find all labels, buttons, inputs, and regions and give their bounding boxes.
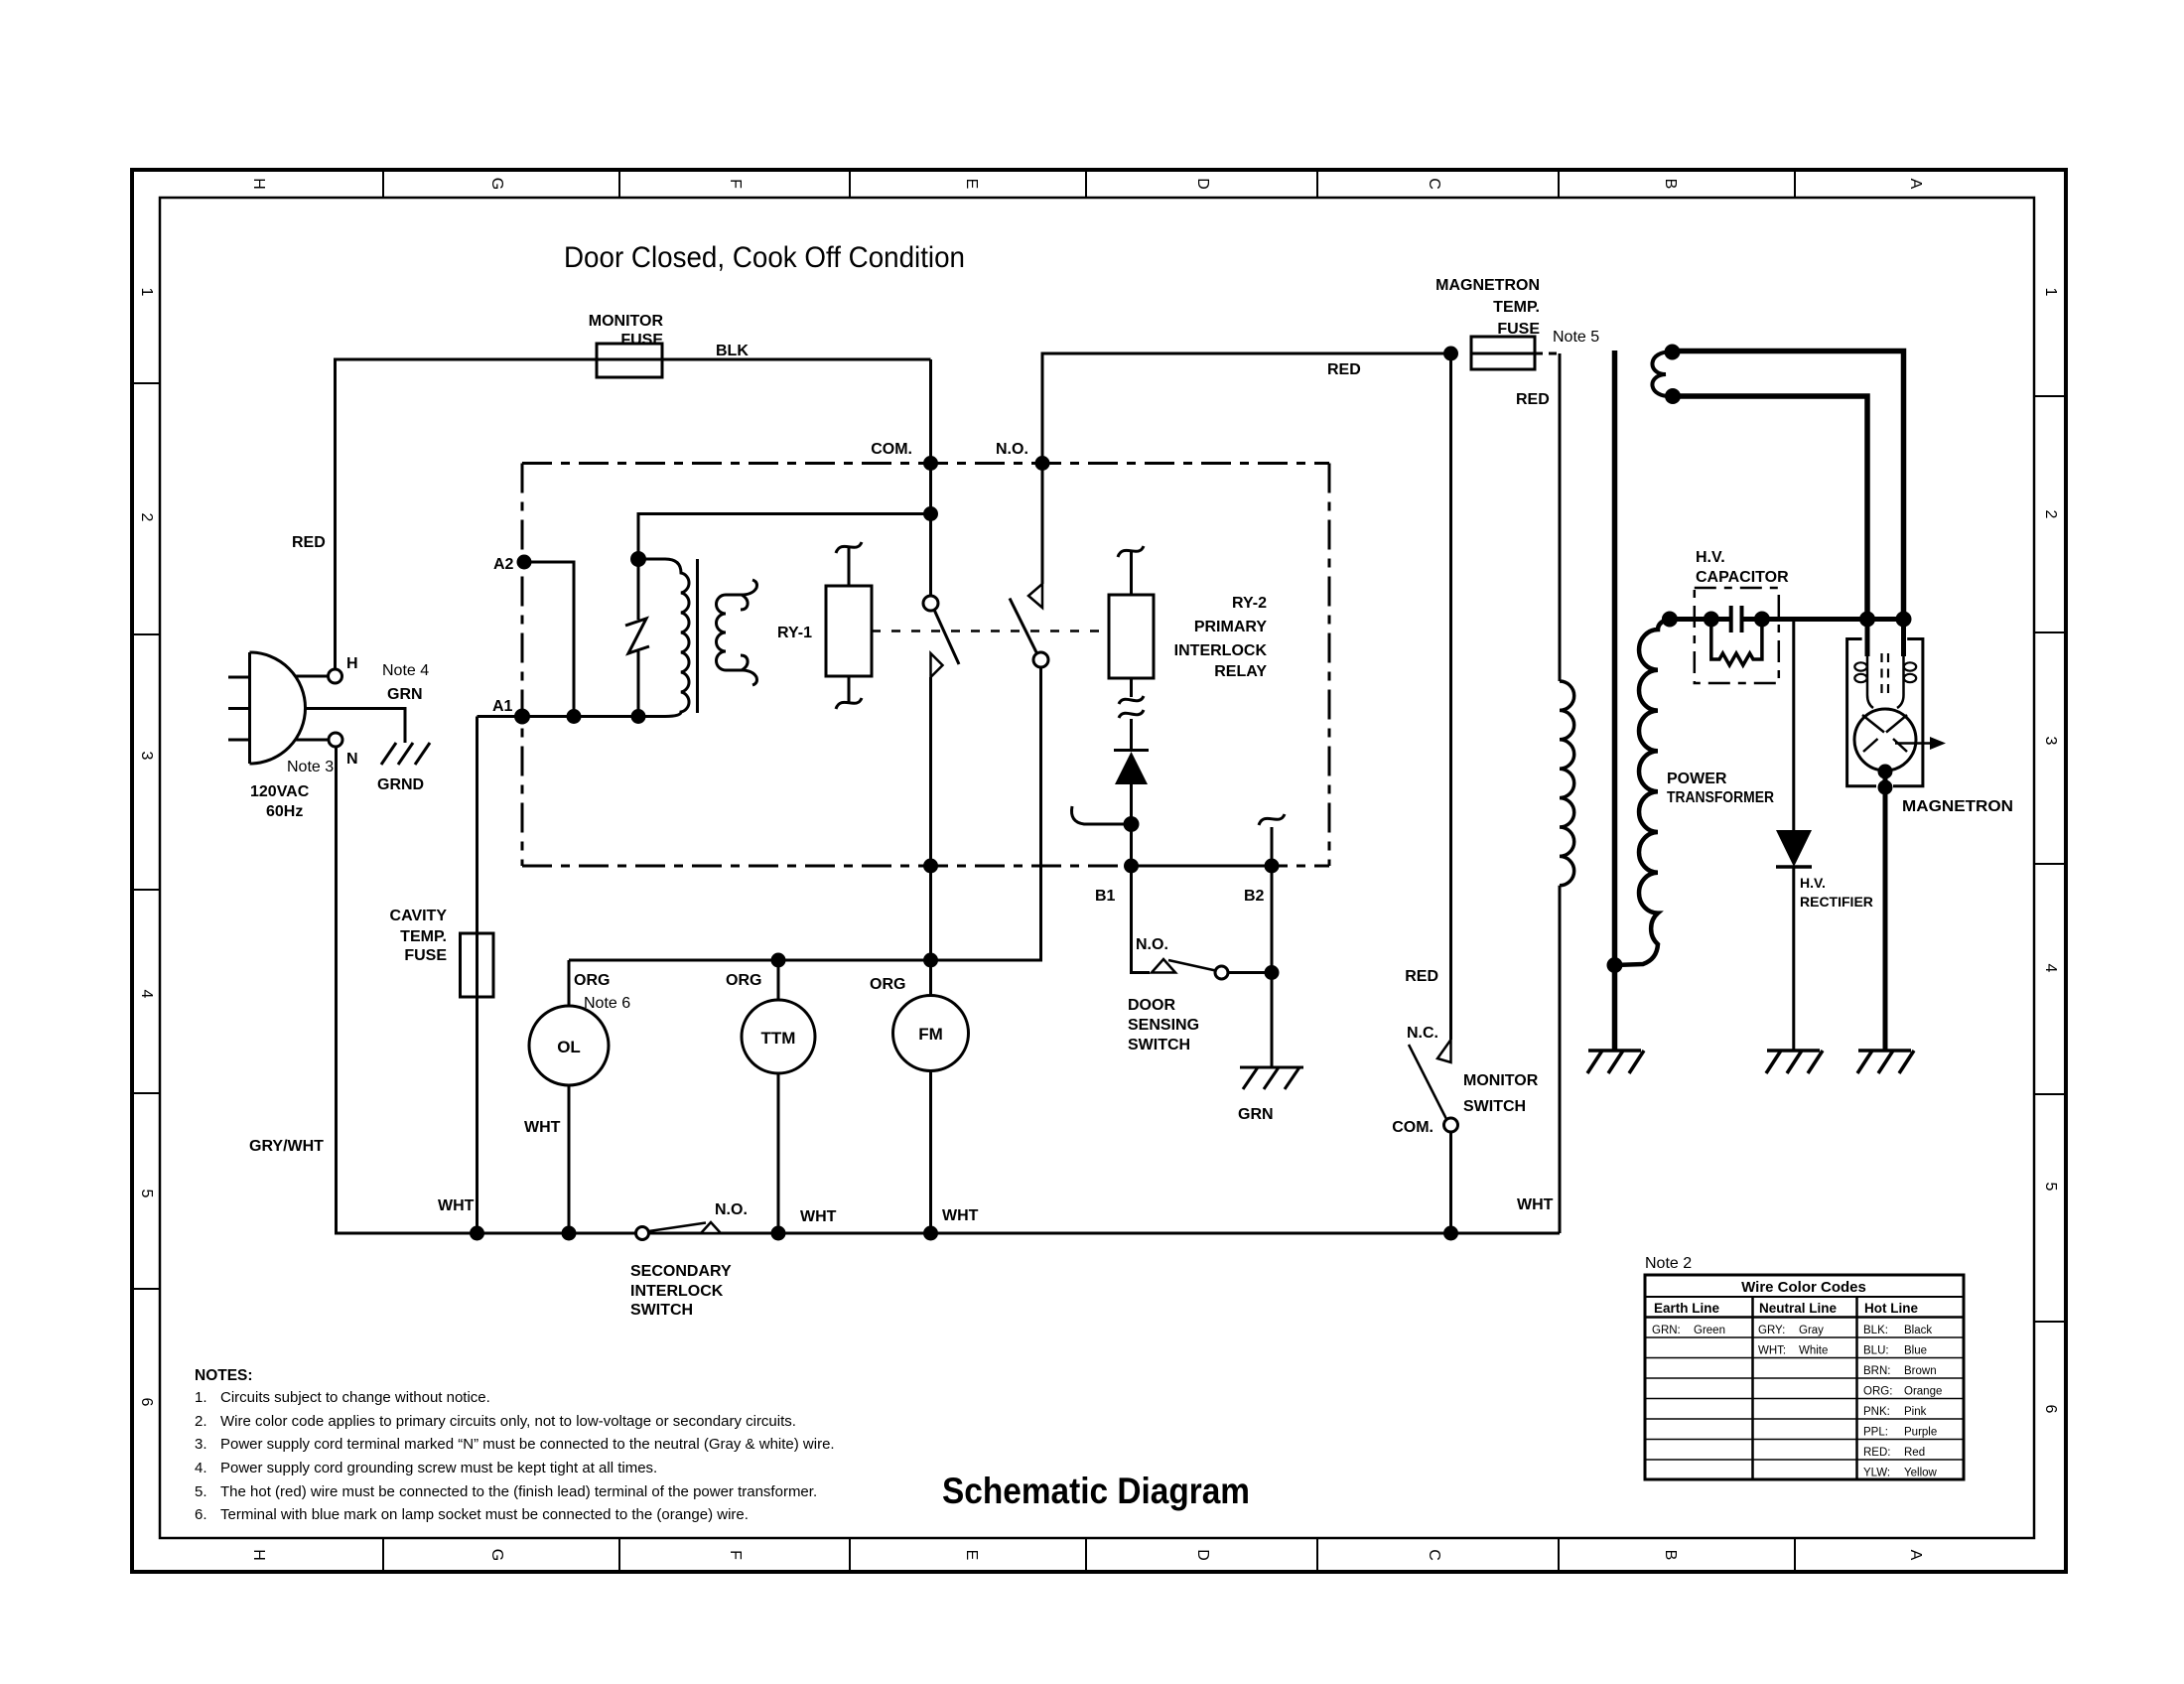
svg-text:4.Power supply cord grounding: 4.Power supply cord grounding screw must… (195, 1460, 657, 1476)
svg-text:Note 2: Note 2 (1645, 1255, 1692, 1272)
magnetron cathode lead to ground (1878, 765, 1893, 779)
ground GRN (1240, 1067, 1303, 1089)
svg-text:GRY/WHT: GRY/WHT (249, 1138, 324, 1155)
svg-text:4: 4 (2042, 964, 2059, 973)
armature hook at node (1124, 816, 1140, 832)
magnetron (1859, 612, 1875, 628)
svg-text:BLK: BLK (716, 343, 749, 359)
node N.O. (1035, 456, 1050, 471)
svg-text:3: 3 (138, 752, 155, 761)
node OL bottom (562, 1226, 577, 1241)
svg-text:GRY:: GRY: (1758, 1325, 1785, 1336)
svg-text:Red: Red (1904, 1447, 1925, 1459)
svg-text:Black: Black (1904, 1325, 1932, 1336)
svg-text:GRN:: GRN: (1652, 1325, 1681, 1336)
magnetron temp fuse (1443, 347, 1458, 361)
svg-text:INTERLOCK: INTERLOCK (1174, 642, 1268, 659)
svg-text:TRANSFORMER: TRANSFORMER (1667, 789, 1774, 806)
svg-text:RECTIFIER: RECTIFIER (1800, 894, 1873, 910)
svg-text:A: A (1907, 179, 1924, 190)
svg-text:H: H (346, 655, 358, 672)
svg-text:Note 5: Note 5 (1553, 329, 1599, 346)
dashed enclosure box (oven cavity boundary) (522, 464, 1329, 867)
svg-text:Schematic Diagram: Schematic Diagram (942, 1471, 1250, 1511)
node B2 with hook (1265, 859, 1280, 874)
svg-text:BLK:: BLK: (1863, 1325, 1888, 1336)
ground (transformer) (1587, 1051, 1644, 1073)
svg-text:Yellow: Yellow (1904, 1468, 1938, 1479)
svg-text:B: B (1662, 179, 1679, 190)
node COM. (923, 456, 938, 471)
svg-text:RED: RED (1516, 391, 1550, 408)
wire A2 to transformer (524, 562, 574, 717)
svg-text:2.Wire color code applies to p: 2.Wire color code applies to primary cir… (195, 1413, 796, 1430)
svg-text:Gray: Gray (1799, 1325, 1824, 1336)
svg-text:BLU:: BLU: (1863, 1345, 1889, 1357)
timer motor TTM (777, 960, 780, 1000)
svg-text:SWITCH: SWITCH (1128, 1037, 1190, 1053)
ground (rectifier) (1766, 1051, 1823, 1073)
node A2 (517, 555, 532, 570)
svg-text:RED: RED (292, 534, 326, 551)
svg-text:C: C (1426, 178, 1442, 190)
bleed resistor (1711, 620, 1762, 666)
svg-text:2: 2 (138, 513, 155, 522)
HV bus thick wire (1670, 617, 1731, 622)
svg-text:ORG: ORG (726, 972, 761, 989)
wire A1 horizontal (478, 715, 639, 718)
svg-text:N.O.: N.O. (996, 441, 1028, 458)
svg-text:Earth Line: Earth Line (1654, 1301, 1720, 1316)
power plug 120VAC 60Hz (228, 652, 306, 764)
svg-text:5: 5 (138, 1190, 155, 1198)
node FM bottom (923, 1226, 938, 1241)
svg-text:TEMP.: TEMP. (1493, 299, 1540, 316)
svg-text:WHT:: WHT: (1758, 1345, 1786, 1357)
svg-text:MAGNETRON: MAGNETRON (1435, 277, 1540, 294)
thick wire HV to ground (1612, 351, 1618, 1051)
node cavity fuse / bottom bus (470, 1226, 484, 1241)
svg-text:60Hz: 60Hz (266, 803, 303, 820)
node A1 (514, 709, 530, 725)
monitor switch (1449, 353, 1452, 1040)
relay coil RY-2 primary interlock relay (1109, 546, 1154, 751)
svg-text:Purple: Purple (1904, 1427, 1937, 1439)
svg-text:1.Circuits subject to change w: 1.Circuits subject to change without not… (195, 1389, 490, 1406)
svg-text:BRN:: BRN: (1863, 1365, 1890, 1377)
H.V. capacitor dashed box (1695, 588, 1779, 683)
element Z (thermal cutout) (625, 559, 649, 717)
svg-text:E: E (963, 179, 980, 190)
svg-text:GRN: GRN (387, 686, 423, 703)
svg-text:TTM: TTM (761, 1029, 796, 1048)
svg-text:6: 6 (138, 1398, 155, 1407)
terminal H (296, 675, 329, 678)
svg-text:COM.: COM. (1392, 1119, 1433, 1136)
svg-text:E: E (963, 1550, 980, 1561)
svg-text:Blue: Blue (1904, 1345, 1927, 1357)
svg-text:Neutral Line: Neutral Line (1759, 1301, 1838, 1316)
wire B1-B2 solid (1132, 865, 1273, 868)
svg-text:WHT: WHT (1517, 1196, 1554, 1213)
svg-text:RY-2: RY-2 (1232, 595, 1267, 612)
svg-text:White: White (1799, 1345, 1828, 1357)
svg-text:F: F (727, 1550, 744, 1560)
svg-text:Wire Color Codes: Wire Color Codes (1741, 1279, 1866, 1296)
svg-text:WHT: WHT (800, 1208, 837, 1225)
svg-text:N: N (346, 751, 358, 768)
wire RED from terminal H to monitor fuse (336, 359, 931, 669)
svg-text:RED: RED (1405, 968, 1438, 985)
svg-text:H.V.: H.V. (1800, 875, 1826, 891)
svg-text:Door Closed, Cook Off Conditio: Door Closed, Cook Off Condition (564, 241, 965, 274)
thick wire filament top to magnetron (1673, 351, 1904, 620)
svg-text:Brown: Brown (1904, 1365, 1937, 1377)
svg-text:PPL:: PPL: (1863, 1427, 1888, 1439)
wire GRN from plug (306, 709, 406, 744)
svg-text:YLW:: YLW: (1863, 1468, 1890, 1479)
svg-text:N.O.: N.O. (1136, 936, 1168, 953)
svg-text:WHT: WHT (942, 1207, 979, 1224)
svg-text:POWER: POWER (1667, 771, 1727, 787)
svg-text:1: 1 (2042, 288, 2059, 297)
transformer T2 secondary winding with arrows (717, 580, 757, 685)
magnetron tube circle (1854, 709, 1916, 771)
wire RY-2 contact down to bus (569, 667, 1041, 960)
thick wire filament bottom to magnetron (1673, 396, 1867, 620)
svg-text:6: 6 (2042, 1405, 2059, 1414)
svg-text:MAGNETRON: MAGNETRON (1902, 798, 2013, 815)
svg-text:6.Terminal with blue mark on l: 6.Terminal with blue mark on lamp socket… (195, 1506, 749, 1523)
svg-text:COM.: COM. (871, 441, 912, 458)
svg-text:SECONDARY: SECONDARY (630, 1263, 732, 1280)
svg-text:Orange: Orange (1904, 1386, 1942, 1398)
svg-text:3: 3 (2042, 737, 2059, 746)
svg-text:PNK:: PNK: (1863, 1406, 1890, 1418)
svg-text:Note 4: Note 4 (382, 662, 429, 679)
svg-text:1: 1 (138, 288, 155, 297)
svg-text:120VAC: 120VAC (250, 783, 310, 800)
H.V. capacitor (1704, 612, 1719, 628)
wire GRY/WHT from terminal N to bottom bus (337, 747, 1561, 1233)
ground (magnetron) (1857, 1051, 1914, 1073)
svg-text:4: 4 (138, 990, 155, 999)
svg-text:CAVITY: CAVITY (390, 908, 448, 924)
svg-text:CAPACITOR: CAPACITOR (1696, 569, 1789, 586)
relay contact RY-2 (on N.O. line) (1041, 464, 1044, 585)
svg-text:WHT: WHT (524, 1119, 561, 1136)
svg-text:F: F (727, 179, 744, 189)
secondary interlock switch (636, 1227, 649, 1240)
svg-text:DOOR: DOOR (1128, 997, 1175, 1014)
wire contact RY-1 down to FM (929, 677, 932, 996)
svg-text:ORG:: ORG: (1863, 1386, 1892, 1398)
svg-text:OL: OL (557, 1038, 581, 1056)
power transformer primary winding (1560, 681, 1574, 886)
door sensing switch (1132, 866, 1151, 973)
svg-text:Pink: Pink (1904, 1406, 1927, 1418)
fan motor FM (923, 953, 938, 968)
svg-text:RY-1: RY-1 (777, 625, 812, 641)
svg-text:RED:: RED: (1863, 1447, 1890, 1459)
svg-text:3.Power supply cord terminal m: 3.Power supply cord terminal marked “N” … (195, 1436, 835, 1453)
svg-text:D: D (1194, 1549, 1211, 1561)
svg-text:WHT: WHT (438, 1197, 475, 1214)
svg-text:FM: FM (918, 1025, 943, 1044)
svg-text:NOTES:: NOTES: (195, 1367, 253, 1384)
lamp OL (568, 960, 571, 1006)
magnetron antenna arrow (1895, 742, 1935, 745)
svg-text:Green: Green (1694, 1325, 1725, 1336)
svg-text:B: B (1662, 1550, 1679, 1561)
svg-text:ORG: ORG (870, 976, 905, 993)
monitor fuse (597, 344, 662, 377)
svg-text:SENSING: SENSING (1128, 1017, 1199, 1034)
svg-text:ORG: ORG (574, 972, 610, 989)
svg-text:Hot Line: Hot Line (1864, 1301, 1918, 1316)
svg-text:RED: RED (1327, 361, 1361, 378)
transformer T2 primary winding (638, 559, 689, 717)
svg-text:INTERLOCK: INTERLOCK (630, 1283, 724, 1300)
svg-text:H.V.: H.V. (1696, 549, 1725, 566)
svg-text:G: G (488, 178, 505, 190)
svg-text:TEMP.: TEMP. (400, 928, 447, 945)
svg-text:N.C.: N.C. (1407, 1025, 1438, 1042)
power transformer HV secondary winding (1615, 620, 1670, 966)
svg-text:5.The hot (red) wire must be c: 5.The hot (red) wire must be connected t… (195, 1483, 817, 1500)
terminal N (296, 739, 330, 742)
wire N.O. up and right to magnetron temp fuse (1042, 353, 1451, 464)
svg-text:Note 3: Note 3 (287, 759, 334, 775)
svg-text:B1: B1 (1095, 888, 1116, 905)
svg-text:A2: A2 (493, 556, 514, 573)
svg-text:H: H (250, 178, 267, 190)
transformer T2 core (696, 559, 699, 713)
relay coil RY-1 (826, 542, 872, 709)
svg-text:H: H (250, 1549, 267, 1561)
svg-text:A: A (1907, 1550, 1924, 1561)
svg-text:SWITCH: SWITCH (630, 1302, 693, 1319)
svg-text:D: D (1194, 178, 1211, 190)
svg-text:PRIMARY: PRIMARY (1194, 619, 1268, 635)
mechanical link dashed RY-1/RY-2 (872, 630, 1109, 632)
svg-text:G: G (488, 1549, 505, 1561)
svg-text:SWITCH: SWITCH (1463, 1098, 1526, 1115)
wire B2 down to ground (1271, 866, 1274, 1067)
svg-text:GRND: GRND (377, 776, 424, 793)
svg-text:FUSE: FUSE (620, 332, 663, 349)
diode (RY-2 coil circuit) (1114, 749, 1149, 752)
magnetron filament (1865, 620, 1870, 657)
H.V. rectifier (1792, 620, 1795, 831)
svg-text:MONITOR: MONITOR (589, 313, 664, 330)
svg-text:5: 5 (2042, 1183, 2059, 1192)
node TTM bottom (771, 1226, 786, 1241)
node B1 (1124, 859, 1139, 874)
svg-text:RELAY: RELAY (1214, 663, 1267, 680)
svg-text:B2: B2 (1244, 888, 1265, 905)
svg-text:C: C (1426, 1549, 1442, 1561)
wire tap from COM line to transformer (638, 514, 931, 560)
relay contact RY-1 (on COM line) (923, 596, 938, 611)
svg-text:FUSE: FUSE (1497, 321, 1540, 338)
svg-text:FUSE: FUSE (404, 947, 447, 964)
svg-text:MONITOR: MONITOR (1463, 1072, 1539, 1089)
svg-text:Note 6: Note 6 (584, 995, 630, 1012)
svg-text:GRN: GRN (1238, 1106, 1274, 1123)
svg-text:2: 2 (2042, 510, 2059, 519)
power transformer filament winding (1652, 351, 1673, 396)
wire from monitor fuse down to COM (929, 359, 932, 596)
svg-text:N.O.: N.O. (715, 1201, 748, 1218)
ground GRND (381, 743, 430, 765)
svg-text:A1: A1 (492, 698, 513, 715)
cavity temp fuse (476, 717, 478, 1234)
